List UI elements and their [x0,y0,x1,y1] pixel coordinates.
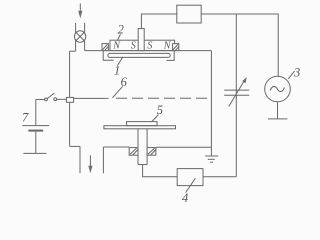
svg-text:3: 3 [293,65,300,79]
svg-text:N: N [112,41,121,52]
svg-text:4: 4 [182,191,188,203]
svg-text:6: 6 [121,75,128,89]
svg-text:S: S [147,41,152,52]
svg-text:S: S [131,41,136,52]
svg-text:1: 1 [114,64,120,78]
svg-text:2: 2 [118,23,124,37]
svg-text:N: N [163,41,172,52]
svg-text:7: 7 [22,111,29,125]
svg-text:5: 5 [157,103,163,117]
